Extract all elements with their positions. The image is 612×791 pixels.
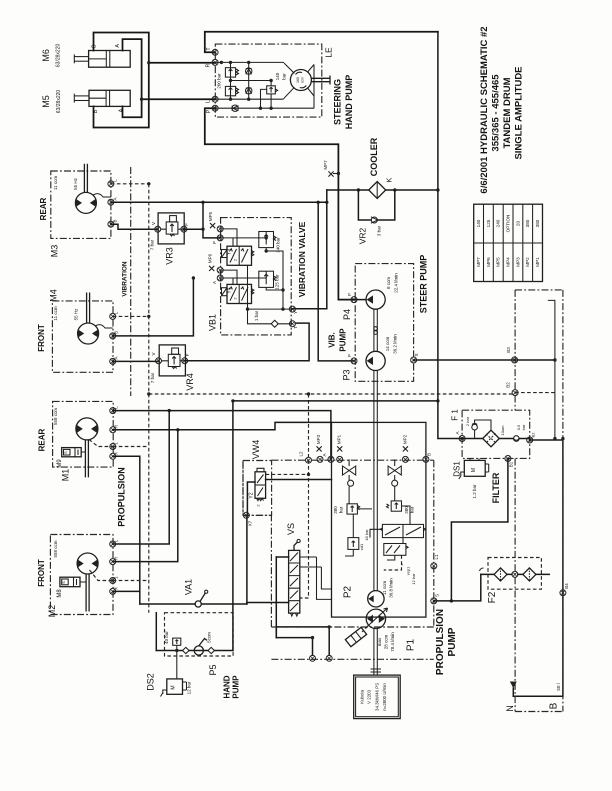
brake M9 xyxy=(62,448,81,457)
svg-text:5ccm: 5ccm xyxy=(207,632,212,643)
suction nozzle N xyxy=(505,682,517,712)
wire suction S to tank B3 xyxy=(414,359,555,361)
svg-text:10um: 10um xyxy=(500,425,505,436)
wire M2 case dashed xyxy=(113,580,149,582)
tank B xyxy=(515,290,563,712)
svg-text:200 bar: 200 bar xyxy=(217,73,222,89)
servo lever xyxy=(345,627,366,646)
svg-text:MP3: MP3 xyxy=(316,434,321,444)
node L1 xyxy=(431,563,437,569)
node S suction xyxy=(431,598,437,604)
wire M4 B to VB1 A rail xyxy=(113,278,194,336)
wire M3 B to VR3 xyxy=(111,224,158,229)
wire propulsion suction to strainer F2 xyxy=(434,574,481,601)
svg-text:11 ccm: 11 ccm xyxy=(53,306,58,320)
svg-text:M8: M8 xyxy=(57,589,63,598)
steer-vib pump unit P3 P4 xyxy=(328,255,429,591)
svg-text:Y4: Y4 xyxy=(227,287,233,293)
bypass valve VR2 3bar xyxy=(358,190,395,244)
wire VR3 F to VB1 P xyxy=(184,202,220,238)
svg-text:1 bar: 1 bar xyxy=(254,310,259,321)
svg-text:140: 140 xyxy=(476,219,481,227)
svg-text:Y3: Y3 xyxy=(227,249,233,255)
svg-text:FRONT: FRONT xyxy=(37,559,46,587)
relief valve 200bar upper xyxy=(225,68,235,77)
node MP1 xyxy=(337,456,343,462)
svg-text:MP5: MP5 xyxy=(496,257,501,267)
SECTION-TITLE xyxy=(479,26,525,193)
port L xyxy=(212,96,218,102)
node L2 xyxy=(306,457,312,463)
svg-text:n=2800 U/min: n=2800 U/min xyxy=(382,683,387,711)
svg-text:DS1: DS1 xyxy=(453,461,462,477)
vibration motor M3 REAR xyxy=(39,164,118,258)
svg-text:M6: M6 xyxy=(41,49,51,62)
svg-text:PROPULSION: PROPULSION xyxy=(435,609,446,675)
svg-text:B: B xyxy=(113,219,118,222)
svg-text:M: M xyxy=(171,685,177,689)
pressure switch DS2 xyxy=(167,679,183,694)
steering hand pump unit LE xyxy=(205,32,438,300)
interior links xyxy=(349,459,395,462)
section line vibration xyxy=(130,167,132,396)
svg-text:vd1: vd1 xyxy=(359,543,364,550)
wire M2 R up to R rail xyxy=(113,430,178,562)
svg-text:M2: M2 xyxy=(47,605,57,618)
wire return rail to filter xyxy=(233,400,438,402)
valve vd1 xyxy=(348,538,359,550)
wire case drain rail to tank B2 xyxy=(149,393,515,395)
svg-text:K: K xyxy=(384,178,393,183)
svg-text:A: A xyxy=(118,108,124,112)
svg-text:MP5: MP5 xyxy=(208,211,213,221)
svg-text:S: S xyxy=(414,353,419,356)
svg-text:28 ccm: 28 ccm xyxy=(384,635,389,650)
port S xyxy=(411,357,417,363)
svg-text:P4: P4 xyxy=(342,309,352,320)
wire VR4 F to VB1 T xyxy=(185,323,309,361)
svg-text:L2: L2 xyxy=(299,451,304,457)
vibration valve block VB1 xyxy=(207,211,298,335)
svg-text:S: S xyxy=(61,581,66,584)
wire T return over top xyxy=(205,32,438,53)
cylinder M5 xyxy=(41,90,130,114)
svg-text:11 ccm: 11 ccm xyxy=(382,581,387,595)
vibration motor M4 FRONT xyxy=(37,289,119,372)
svg-text:M4: M4 xyxy=(49,289,59,302)
svg-text:11 ccm: 11 ccm xyxy=(53,176,58,190)
svg-text:VW4: VW4 xyxy=(251,440,261,460)
svg-text:39.2 l/min: 39.2 l/min xyxy=(392,334,397,354)
svg-text:B2: B2 xyxy=(506,382,511,388)
svg-text:14 ccm: 14 ccm xyxy=(385,337,390,352)
svg-text:M: M xyxy=(471,468,477,472)
relief 380bar A xyxy=(347,504,357,514)
port P xyxy=(212,105,218,111)
svg-text:MP1: MP1 xyxy=(535,257,540,267)
relief valve 125 bar xyxy=(259,271,274,287)
shaft P3 down xyxy=(374,371,377,591)
svg-text:P3: P3 xyxy=(342,369,352,380)
wire M2 L up to A rail xyxy=(113,411,170,544)
relief 40 bar xyxy=(173,638,181,645)
svg-text:A: A xyxy=(114,356,119,359)
svg-text:N: N xyxy=(505,705,515,712)
svg-text:22.4 l/min: 22.4 l/min xyxy=(394,273,399,293)
svg-text:240 bar: 240 bar xyxy=(276,237,281,253)
svg-text:VIBRATION VALVE: VIBRATION VALVE xyxy=(297,221,307,297)
wire M1 L to pump A xyxy=(113,411,331,460)
wire vib return to cooler xyxy=(292,190,326,309)
svg-text:V 2203: V 2203 xyxy=(367,689,372,703)
svg-text:MP4: MP4 xyxy=(506,257,511,267)
node MP2 xyxy=(402,456,408,462)
wire M4 case drain xyxy=(113,315,149,317)
svg-text:A: A xyxy=(212,281,217,284)
svg-text:P2: P2 xyxy=(343,585,354,598)
svg-text:Kubota: Kubota xyxy=(359,689,364,703)
svg-text:F: F xyxy=(185,353,190,356)
cooler K xyxy=(327,137,440,198)
svg-text:F: F xyxy=(184,223,189,226)
node MP3 xyxy=(317,456,323,462)
relief valve 240 bar xyxy=(259,232,274,248)
svg-text:P: P xyxy=(347,354,352,357)
svg-text:M5: M5 xyxy=(41,95,51,108)
wire M4 A to VR4 xyxy=(113,360,159,362)
svg-text:55 Hz: 55 Hz xyxy=(73,177,78,190)
svg-text:bar: bar xyxy=(521,424,526,430)
hand pump P5 xyxy=(146,613,241,699)
svg-text:STEERING: STEERING xyxy=(333,79,343,125)
svg-text:P: P xyxy=(347,293,352,296)
check valve upper xyxy=(246,68,252,74)
svg-text:558 ccm: 558 ccm xyxy=(53,540,58,557)
shaft P4-P3 xyxy=(374,309,377,351)
svg-text:PROPULSION: PROPULSION xyxy=(117,467,127,527)
wire M3 case drain xyxy=(111,183,149,185)
brake M8 xyxy=(60,577,80,587)
svg-text:R: R xyxy=(206,63,212,67)
svg-text:V: V xyxy=(151,352,156,355)
svg-text:240: 240 xyxy=(496,219,501,227)
valve VR4 7bar xyxy=(150,345,195,391)
port R xyxy=(212,59,218,65)
svg-text:bar: bar xyxy=(338,506,343,513)
svg-text:40 bar: 40 bar xyxy=(164,631,169,644)
propulsion motor M2 FRONT xyxy=(37,535,119,618)
svg-text:OPTION: OPTION xyxy=(506,215,511,233)
svg-text:LE: LE xyxy=(324,47,334,58)
wire filter to tank B4 and N xyxy=(513,440,563,696)
svg-text:B1: B1 xyxy=(509,461,514,467)
port T xyxy=(212,49,218,55)
engine Kubota xyxy=(354,629,401,719)
svg-text:Y2: Y2 xyxy=(249,492,255,498)
check valve 1 bar xyxy=(271,320,278,327)
svg-text:MP6: MP6 xyxy=(208,253,213,263)
svg-text:8 ccm: 8 ccm xyxy=(386,277,391,289)
svg-text:vsp1: vsp1 xyxy=(406,566,411,575)
svg-text:VIB.: VIB. xyxy=(328,332,337,348)
wire M3 A rail xyxy=(111,201,327,203)
wire R line to steering xyxy=(149,62,215,64)
svg-text:VS: VS xyxy=(286,523,296,535)
engine shaft xyxy=(374,629,377,676)
svg-text:PUMP: PUMP xyxy=(339,328,348,352)
towing valve VW4 xyxy=(243,440,332,527)
servo lines to pump xyxy=(317,557,332,599)
wire VA1 suction riser xyxy=(232,401,234,651)
svg-text:B: B xyxy=(427,453,432,456)
svg-text:6/6/2001 HYDRAULIC SCHEMATIC #: 6/6/2001 HYDRAULIC SCHEMATIC #2 xyxy=(479,26,490,193)
svg-text:MP3: MP3 xyxy=(515,257,520,267)
wire cylinder B loop xyxy=(94,33,149,128)
svg-text:A: A xyxy=(455,431,460,434)
svg-text:B: B xyxy=(548,702,559,709)
svg-text:20: 20 xyxy=(515,221,520,227)
check valve on P line xyxy=(232,105,238,111)
Y2 wires xyxy=(266,473,309,475)
svg-text:L1: L1 xyxy=(434,554,439,560)
pressure cutoff valve xyxy=(384,544,406,556)
svg-text:ccm: ccm xyxy=(301,77,305,84)
svg-text:380: 380 xyxy=(404,506,409,514)
svg-text:X: X xyxy=(114,452,119,455)
svg-text:REAR: REAR xyxy=(38,428,47,451)
svg-text:V: V xyxy=(151,222,156,225)
svg-text:VA1: VA1 xyxy=(184,579,194,595)
svg-text:B4: B4 xyxy=(564,583,569,589)
svg-text:34.3kW/46 PS: 34.3kW/46 PS xyxy=(374,683,379,711)
pilot dashed L2 riser xyxy=(300,394,309,598)
flushing shuttle A side xyxy=(343,462,356,475)
svg-text:S: S xyxy=(435,594,440,597)
node MP5 xyxy=(217,226,223,232)
svg-text:TANDEM DRUM: TANDEM DRUM xyxy=(502,77,513,148)
svg-text:P1: P1 xyxy=(406,638,417,651)
relief 380bar B xyxy=(391,501,401,511)
wire cylinder A loop xyxy=(123,39,142,117)
servo valve pair xyxy=(382,524,423,537)
svg-text:140: 140 xyxy=(275,72,280,80)
svg-text:558 ccm: 558 ccm xyxy=(53,408,58,425)
node B2 tank xyxy=(512,390,518,396)
svg-text:MP2: MP2 xyxy=(525,257,530,267)
wire L line to steering xyxy=(142,98,216,100)
node X7 xyxy=(243,512,249,518)
svg-text:VR3: VR3 xyxy=(164,247,174,265)
svg-text:A: A xyxy=(113,197,118,200)
svg-text:A: A xyxy=(115,44,121,48)
gerotor 160ccm xyxy=(290,70,311,91)
svg-text:DS2: DS2 xyxy=(146,673,156,691)
svg-text:63/28x220: 63/28x220 xyxy=(56,90,62,114)
test port MP7 xyxy=(323,160,340,177)
pump P4 xyxy=(366,290,385,309)
wire brake X line xyxy=(113,456,140,604)
svg-text:MP2: MP2 xyxy=(402,434,407,444)
svg-text:125 bar: 125 bar xyxy=(275,274,280,290)
svg-text:REAR: REAR xyxy=(39,197,48,220)
solenoid valve Y3 xyxy=(227,246,252,265)
wire vib pressure to P3 xyxy=(318,202,354,361)
svg-text:380: 380 xyxy=(525,219,530,227)
svg-text:MP6: MP6 xyxy=(486,257,491,267)
svg-text:HAND PUMP: HAND PUMP xyxy=(344,75,354,130)
svg-text:B2: B2 xyxy=(531,432,536,438)
wire main return drop xyxy=(438,32,462,439)
wire B1 drain to suction xyxy=(451,459,508,601)
propulsion motor M1 REAR xyxy=(38,401,119,481)
check valves xyxy=(348,480,354,486)
svg-text:3 bar: 3 bar xyxy=(377,225,382,236)
svg-text:bar: bar xyxy=(282,73,287,80)
steering unit dashed box xyxy=(215,44,321,117)
svg-text:A: A xyxy=(322,453,327,456)
pump P2 xyxy=(368,591,384,607)
svg-text:380: 380 xyxy=(535,219,540,227)
relief valve 200bar lower xyxy=(225,86,235,95)
solenoid valve Y4 xyxy=(227,284,252,303)
svg-text:MP7: MP7 xyxy=(323,160,328,170)
svg-text:55 Hz: 55 Hz xyxy=(73,308,78,321)
svg-text:12 bar: 12 bar xyxy=(187,681,192,694)
svg-text:X7: X7 xyxy=(248,520,253,526)
check valve lower xyxy=(246,88,252,94)
svg-text:P: P xyxy=(212,241,217,244)
svg-text:MP1: MP1 xyxy=(337,434,342,444)
svg-text:78.4 l/min: 78.4 l/min xyxy=(390,632,395,652)
filter F1 xyxy=(451,409,536,459)
svg-text:30.8 l/min: 30.8 l/min xyxy=(389,578,394,598)
node MP6 xyxy=(217,267,223,273)
svg-text:355/365 - 455/465: 355/365 - 455/465 xyxy=(491,74,502,152)
svg-text:VR4: VR4 xyxy=(185,373,195,391)
svg-text:HAND: HAND xyxy=(223,675,232,698)
VB1 interior wires xyxy=(220,229,237,246)
steering interior rails xyxy=(215,62,294,73)
relief valve 140 bar xyxy=(267,86,276,94)
wire case drain manifold xyxy=(148,184,150,613)
svg-text:63/28x220: 63/28x220 xyxy=(56,44,62,68)
cylinder M6 xyxy=(41,44,130,68)
drive lever valve VS xyxy=(247,523,322,638)
svg-text:VR2: VR2 xyxy=(358,227,368,244)
valve VR3 7bar xyxy=(150,213,190,265)
svg-text:P5: P5 xyxy=(208,664,218,675)
wire M1 case dashed xyxy=(113,446,149,448)
svg-text:X: X xyxy=(114,587,119,590)
svg-text:7 bar: 7 bar xyxy=(150,372,155,383)
svg-text:M1: M1 xyxy=(61,469,71,482)
wire X7 riser xyxy=(246,515,248,604)
MP pressure table xyxy=(474,204,543,281)
svg-text:1.2 bar: 1.2 bar xyxy=(472,484,477,499)
wire M1 R to pump top xyxy=(113,422,332,429)
svg-text:12 bar: 12 bar xyxy=(411,573,416,585)
pressure switch DS1 xyxy=(453,458,502,503)
node B1 xyxy=(505,456,511,462)
gerotor P loop xyxy=(215,65,314,109)
svg-text:MP7: MP7 xyxy=(476,257,481,267)
svg-text:COOLER: COOLER xyxy=(369,137,379,176)
svg-text:B3: B3 xyxy=(506,347,511,353)
svg-text:M9: M9 xyxy=(57,459,63,468)
solenoid valve Y2 xyxy=(255,472,266,499)
svg-text:T: T xyxy=(206,47,212,50)
svg-text:VIBRATION: VIBRATION xyxy=(122,261,129,297)
svg-text:M3: M3 xyxy=(50,245,60,258)
svg-text:PUMP: PUMP xyxy=(231,675,240,699)
svg-text:SINGLE AMPLITUDE: SINGLE AMPLITUDE xyxy=(514,66,525,159)
svg-text:F 1: F 1 xyxy=(451,409,460,421)
svg-text:VB1: VB1 xyxy=(207,314,217,331)
svg-text:STEER PUMP: STEER PUMP xyxy=(418,255,428,314)
svg-text:50 l: 50 l xyxy=(556,683,561,690)
svg-text:18 bar: 18 bar xyxy=(364,529,369,541)
svg-text:L: L xyxy=(206,100,212,103)
svg-text:125: 125 xyxy=(486,219,491,227)
VS side wires xyxy=(247,557,289,603)
svg-text:7 bar: 7 bar xyxy=(150,239,155,250)
svg-text:FILTER: FILTER xyxy=(491,472,501,503)
svg-text:FRONT: FRONT xyxy=(37,324,46,352)
svg-text:T: T xyxy=(293,326,298,329)
svg-text:F2: F2 xyxy=(487,591,498,603)
svg-text:Y: Y xyxy=(293,311,298,314)
svg-text:380: 380 xyxy=(333,506,338,514)
steering output shaft xyxy=(311,76,330,85)
svg-text:B: B xyxy=(91,44,97,48)
svg-text:B: B xyxy=(114,331,119,334)
svg-text:160: 160 xyxy=(296,77,300,83)
suction strainers F2 xyxy=(480,558,550,604)
node B3 xyxy=(512,357,518,363)
svg-text:2 bar: 2 bar xyxy=(465,416,470,426)
svg-text:S: S xyxy=(63,451,68,454)
pump P3 xyxy=(366,351,385,370)
valve VA1 brake release xyxy=(140,579,247,607)
propulsion pump block P1 P2 xyxy=(243,422,440,659)
svg-text:PUMP: PUMP xyxy=(447,627,458,656)
pump P1 variable xyxy=(366,609,385,628)
node B4 xyxy=(560,590,566,596)
wire P supply from steer pump xyxy=(205,108,354,299)
